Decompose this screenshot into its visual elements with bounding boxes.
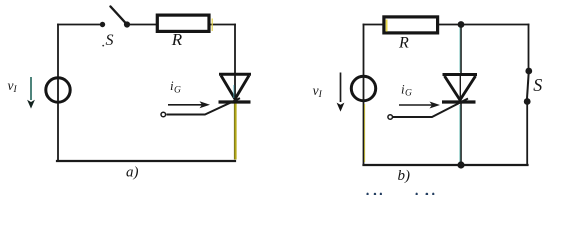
svg-text:a): a) [126,164,139,180]
svg-text:S: S [533,75,542,95]
svg-text:S: S [106,32,114,49]
svg-text:vI: vI [313,83,323,100]
svg-text:iG: iG [401,82,412,99]
svg-text:iG: iG [170,78,181,96]
svg-text:b): b) [398,168,411,184]
svg-text:R: R [398,35,409,52]
svg-text:R: R [171,30,183,49]
svg-text:vI: vI [8,78,18,95]
